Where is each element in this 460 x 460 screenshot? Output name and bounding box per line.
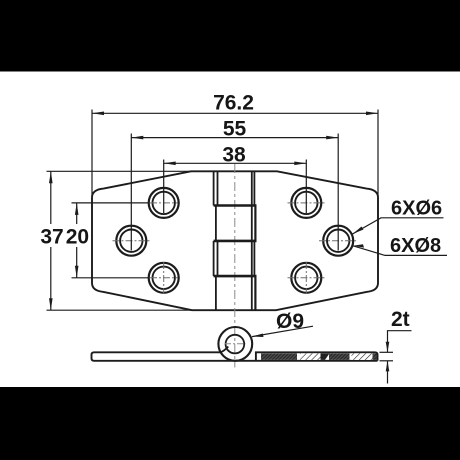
dim 2t line upper tail — [388, 331, 412, 353]
bottom letterbox bar — [0, 387, 460, 460]
svg-text:6XØ6: 6XØ6 — [391, 198, 442, 220]
barrel knuckle segment 2 verticals — [216, 206, 256, 241]
hole right-top outer — [291, 188, 321, 218]
dim 38 extension line left (through left-top hole) — [163, 160, 165, 214]
side view: right leaf top edge and end — [256, 352, 378, 361]
55 arrows — [131, 136, 143, 140]
svg-text:38: 38 — [222, 144, 246, 167]
hole left-top outer — [149, 188, 179, 218]
dimension arrowheads — [49, 112, 389, 372]
barrel joint line 3 — [214, 275, 257, 278]
svg-text:37: 37 — [40, 225, 63, 248]
hole left-bottom outer — [149, 263, 179, 293]
side view: leaf curl into barrel — [220, 347, 228, 353]
76.2 arrows — [92, 112, 104, 116]
O9 leader arrow — [252, 334, 264, 338]
dim 20 line (broken for text) — [76, 203, 78, 224]
svg-text:Ø9: Ø9 — [276, 310, 304, 333]
hole right-mid inner — [327, 230, 349, 252]
dim 37 extension line top — [47, 170, 193, 172]
dim 38 line — [164, 162, 307, 164]
dim 55 extension line left (through left-mid hole) — [130, 134, 132, 251]
6XO6 leader arrow — [353, 227, 364, 235]
hole left-bottom inner — [153, 267, 175, 289]
hole left-top inner — [153, 192, 175, 214]
dim 55 line — [131, 137, 338, 139]
side view: left leaf bar — [92, 352, 378, 361]
leader 6XO6 — [353, 218, 444, 234]
svg-text:55: 55 — [223, 117, 247, 140]
side view: circle horizontal centerline — [225, 343, 246, 345]
hinge leaf outline (top view) — [92, 171, 378, 310]
dim 37 line (broken for text) — [50, 171, 52, 224]
hatch fill: right leaf cross-section — [261, 353, 377, 360]
leader 6XO8 — [353, 246, 447, 256]
dim 55 extension line right (through right-mid hole) — [337, 134, 339, 251]
svg-text:6XØ8: 6XØ8 — [390, 235, 441, 257]
dim 76.2 line — [92, 112, 378, 114]
hole left-mid inner — [120, 230, 142, 252]
barrel knuckle segment 1 verticals — [214, 171, 255, 205]
dim 20 extension line bottom (through left-bottom hole) — [72, 277, 149, 279]
barrel joint line 1 — [214, 204, 257, 207]
hole crosshair marks (gray) — [113, 203, 358, 294]
6XO8 leader arrow — [353, 244, 364, 247]
svg-text:20: 20 — [66, 225, 89, 248]
dim 20 extension line top (through left-top hole) — [72, 202, 149, 204]
barrel centerline (top view + side view) — [234, 164, 236, 368]
hole right-mid outer — [323, 226, 353, 256]
top letterbox bar — [0, 0, 460, 72]
side view: barrel outer circle — [218, 327, 252, 361]
hole left-mid outer — [116, 226, 146, 256]
hole right-bottom outer — [291, 263, 321, 293]
dim 76.2 extension line left — [91, 110, 93, 197]
2t lower arrow — [386, 361, 390, 372]
dim 37 extension line bottom — [47, 309, 194, 311]
barrel knuckle segment 4 verticals — [216, 276, 256, 310]
20 arrows — [75, 203, 79, 215]
dim 76.2 extension line right — [377, 110, 379, 197]
svg-text:2t: 2t — [391, 308, 410, 331]
38 arrows — [164, 162, 176, 166]
dim 38 extension line right (through right-top hole) — [305, 160, 307, 214]
barrel joint line 2 — [214, 240, 257, 243]
dim 2t extension lines — [380, 351, 394, 353]
side view: pin hole inner circle — [226, 335, 245, 354]
svg-text:76.2: 76.2 — [213, 92, 254, 115]
leader O9 — [252, 326, 313, 336]
hole right-top inner — [295, 192, 317, 214]
dim 2t line lower tail — [387, 361, 389, 384]
37 arrows — [49, 171, 53, 183]
barrel knuckle segment 3 verticals — [214, 241, 255, 276]
2t upper arrow — [386, 342, 390, 353]
hole right-bottom inner — [295, 267, 317, 289]
